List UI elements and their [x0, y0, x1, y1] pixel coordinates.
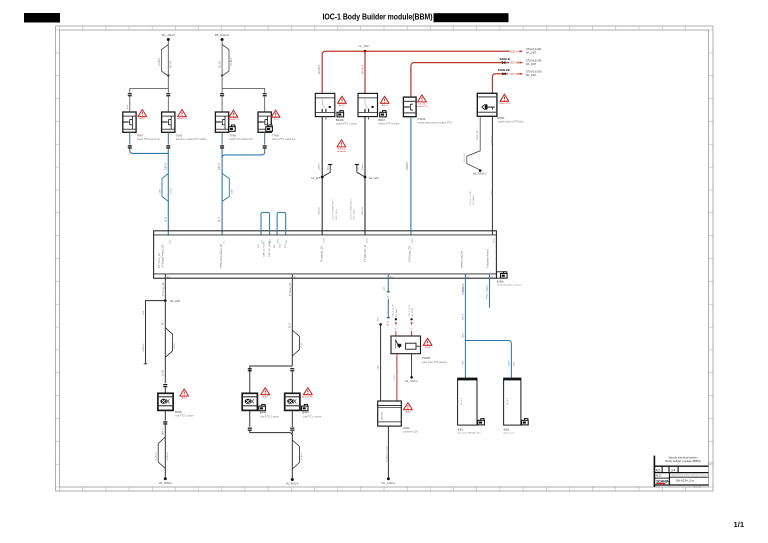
red wire P2606 to A43A [396, 354, 398, 401]
svg-text:A140: A140 [406, 410, 412, 413]
svg-text:C84(-2,-2)_8F: C84(-2,-2)_8F [393, 304, 395, 317]
svg-text:AA_NA4: AA_NA4 [369, 176, 380, 180]
svg-text:40-1: 40-1 [390, 276, 394, 278]
node WL_B05x4 [164, 477, 167, 480]
svg-text:(P-N-G_1-)/12D: (P-N-G_1-)/12D [470, 190, 472, 205]
wire [167, 97, 169, 112]
svg-text:B301: B301 [458, 428, 464, 431]
svg-text:T-number 4 mm2: T-number 4 mm2 [487, 248, 490, 268]
svg-text:LT/6C: LT/6C [174, 343, 176, 349]
svg-text:NL/85-1: NL/85-1 [158, 57, 161, 66]
svg-text:E56A: E56A [498, 116, 505, 120]
svg-text:90/9B: 90/9B [162, 370, 164, 376]
svg-text:BL/4: BL/4 [218, 216, 221, 222]
wire [291, 372, 293, 394]
svg-text:C84(-2,-3)_2F: C84(-2,-3)_2F [409, 304, 411, 317]
wire below B447 [291, 410, 293, 426]
svg-text:ST70 res_2B: ST70 res_2B [162, 282, 165, 296]
svg-text:S30B-B: S30B-B [500, 57, 510, 61]
wire bypass loop right [292, 330, 299, 356]
wire below T7A9 [264, 132, 266, 144]
svg-text:LT/1C: LT/1C [170, 188, 172, 194]
warning triangle at P2606 [423, 338, 432, 349]
svg-text:1 out: 1 out [656, 485, 661, 488]
warning triangle at B344b [338, 96, 347, 107]
svg-text:T7A9: T7A9 [272, 133, 279, 137]
warning triangle at B447 [302, 388, 314, 399]
connector splice above B447 [290, 368, 294, 371]
wire to node B2_B05x4 [291, 431, 293, 478]
svg-text:connector: connector [337, 150, 346, 153]
blue jumper staple 2 on bar [277, 212, 286, 234]
svg-text:LT/4C: LT/4C [301, 342, 303, 348]
warning triangle at T1A1 [177, 110, 188, 121]
svg-text:BL/A: BL/A [326, 165, 329, 170]
svg-text:switch PTO status 3rd: switch PTO status 3rd [229, 138, 253, 141]
svg-text:NBF-3: NBF-3 [162, 428, 164, 435]
red feed arrow S30-1 [511, 48, 543, 54]
blue wire T7A8 to bar pin [221, 149, 223, 235]
svg-text:WL_NA4x-1: WL_NA4x-1 [472, 193, 475, 205]
title block top tick on frame [709, 462, 714, 464]
warning triangle at P1141 [416, 95, 427, 108]
svg-text:WL_NA64+: WL_NA64+ [405, 380, 418, 383]
svg-text:GB31-B: GB31-B [362, 207, 364, 215]
svg-text:WL_NA24-1: WL_NA24-1 [473, 173, 487, 176]
svg-text:14/4T: 14/4T [231, 188, 233, 194]
svg-text:BT+1.2: BT+1.2 [461, 397, 463, 405]
plug icon at B301 [478, 419, 485, 425]
svg-text:T1A1: T1A1 [176, 133, 183, 137]
svg-text:B4517: B4517 [139, 118, 146, 120]
svg-text:GB31_NA4u: GB31_NA4u [353, 209, 356, 220]
wire into switch T1A1 [167, 89, 169, 93]
svg-text:LM/2: LM/2 [462, 332, 464, 338]
blue wire stub continuation [387, 299, 389, 318]
blue wire bypass loop 2 [222, 174, 229, 202]
connector splice above T7A9 [263, 93, 267, 96]
svg-text:switch-disconnector engine PTO: switch-disconnector engine PTO [418, 122, 453, 125]
svg-text:4b 20: 4b 20 [656, 475, 663, 478]
connector splice below B447 [290, 428, 294, 431]
svg-text:T7A8: T7A8 [229, 133, 236, 137]
switch T1A1 [162, 112, 175, 132]
lamp B447 [285, 393, 300, 410]
svg-text:NL/85-2: NL/85-2 [230, 57, 233, 66]
svg-text:10AE-4: 10AE-4 [318, 162, 321, 170]
plug icon at B446 [259, 404, 266, 410]
svg-text:30.15: 30.15 [270, 239, 272, 244]
warning triangle at A43A [404, 403, 413, 414]
wire into switch T7A8 [221, 89, 223, 93]
red feed arrow S30B-2B [498, 68, 542, 77]
wire bypass loop right of WL_ANAU2 drop [222, 45, 229, 77]
connector splice below T7A8 [220, 145, 224, 148]
redaction box top-left [24, 13, 60, 23]
svg-text:14/1T: 14/1T [160, 188, 162, 194]
svg-text:B-GB37-2_1.5Q: B-GB37-2_1.5Q [387, 446, 389, 462]
svg-text:switch PTO 4 active: switch PTO 4 active [379, 123, 401, 126]
warning triangle at B347 [380, 96, 389, 107]
svg-text:19: 19 [491, 276, 493, 278]
lamp B446 [242, 393, 257, 410]
node UL_1007 [364, 50, 367, 53]
switch T6A7 [123, 112, 136, 132]
node WL_NA24-1 [479, 169, 482, 172]
BCI box B301 [458, 378, 481, 435]
svg-text:WL_B05x4: WL_B05x4 [159, 481, 172, 485]
svg-text:3 4: 3 4 [671, 468, 676, 472]
svg-text:S30-1: S30-1 [511, 50, 518, 53]
wire below T7A8 (blue) [221, 132, 223, 144]
svg-text:relay timer PTO gauges: relay timer PTO gauges [422, 361, 448, 364]
svg-text:WL_ANAU: WL_ANAU [162, 33, 176, 37]
relay P2606 [391, 336, 448, 364]
plug icon at T7A8 [229, 125, 236, 131]
svg-text:converter 12V: converter 12V [403, 431, 418, 434]
wire bypass loop left [158, 437, 165, 469]
relay B347 [358, 93, 400, 125]
svg-text:1/1: 1/1 [734, 520, 745, 529]
wire [221, 97, 223, 112]
relay B344b [315, 93, 357, 125]
blue wire bar to BCI boxes [465, 274, 511, 378]
lamp B445 [158, 393, 173, 410]
blue wire bar pin 40-1 [387, 274, 389, 292]
node WL_E05 [164, 299, 167, 302]
wire node WL_E05 to lamp B445 [164, 301, 166, 384]
svg-text:NBF-3: NBF-3 [164, 162, 167, 170]
svg-text:UL_1007: UL_1007 [358, 44, 370, 48]
svg-text:3-1: 3-1 [294, 276, 297, 278]
svg-text:10AE-2: 10AE-2 [361, 162, 364, 170]
blue wire T1A1 to bar pin [167, 149, 169, 235]
svg-text:SSW2.2B: SSW2.2B [492, 135, 494, 145]
svg-text:B2_B05x4: B2_B05x4 [286, 482, 299, 486]
wire E56A right pin to bar [491, 116, 493, 234]
wire below B445 [164, 410, 166, 420]
svg-text:PTO1 level select_2B: PTO1 level select_2B [220, 244, 223, 268]
wire E56A left pin with jog [467, 116, 480, 170]
svg-text:SCANIA: SCANIA [656, 479, 669, 483]
red supply wire UL_1007 [322, 51, 510, 93]
wire bypass loop right [165, 328, 172, 358]
svg-text:C8/18: C8/18 [324, 238, 326, 243]
blue stub wire TW/19 [489, 274, 491, 308]
switch-disconnector P1141 [403, 97, 452, 124]
svg-text:C8/22: C8/22 [366, 238, 368, 243]
blue jumper staple 1 on bar [261, 212, 270, 234]
svg-text:switch mode of PTO(1st): switch mode of PTO(1st) [498, 121, 524, 124]
connector splice above B445 [163, 384, 167, 387]
pin stub relay B347 pin 2 [368, 117, 370, 120]
wire relay B347 to bar [364, 117, 366, 235]
wire merge below lamps [250, 431, 292, 436]
warning triangle at T6A7 [138, 110, 147, 121]
connector splice below B445 [163, 421, 167, 424]
svg-text:30.15: 30.15 [278, 239, 280, 244]
BCI box B302 [504, 378, 521, 435]
svg-text:WL_1007: WL_1007 [526, 63, 537, 66]
svg-text:T-BT: T-BT [492, 190, 494, 195]
svg-text:C-5V: C-5V [394, 374, 396, 380]
connector splice above B446 [248, 368, 252, 371]
switch T7A8 [215, 112, 228, 132]
blue wire bus pair 1 [130, 149, 169, 154]
svg-text:A3: A3 [656, 468, 660, 472]
plug icon at B347 [380, 111, 387, 117]
svg-text:B344b: B344b [336, 118, 345, 122]
svg-text:29: 29 [467, 276, 469, 278]
wire bypass loop left of WL_ANAU drop [162, 45, 169, 77]
plug icon at B302 [522, 419, 529, 425]
svg-text:WWE_4B: WWE_4B [477, 130, 479, 140]
svg-text:A140: A140 [425, 346, 431, 349]
blue wire P1141 to bar [410, 117, 412, 235]
svg-text:B/S: B/S [514, 362, 516, 366]
switch T7A9 [258, 112, 271, 132]
svg-text:BL/4: BL/4 [289, 323, 291, 328]
warning triangle at E56A [499, 94, 510, 105]
wire below B446 [249, 410, 251, 426]
svg-text:WL_1007: WL_1007 [526, 52, 537, 55]
connector splice above T7A8 [220, 93, 224, 96]
warning triangle at B445 [180, 389, 189, 400]
wire converter feed from node [379, 323, 382, 326]
connector splice below T6A7 [128, 145, 132, 148]
red pin stub C84-2 [393, 304, 398, 336]
red wire down to relay B347 [364, 51, 366, 93]
svg-text:switch-st y-status PTO status: switch-st y-status PTO status [176, 138, 208, 141]
svg-text:BCI chassis: BCI chassis [504, 433, 515, 435]
svg-text:IP outputs_2B: IP outputs_2B [321, 246, 324, 262]
node B2_B05x4 [291, 478, 294, 481]
node AA_NA4 [364, 176, 367, 179]
svg-text:16b-8234_/1st: 16b-8234_/1st [675, 479, 694, 483]
svg-text:sheet 1/1: sheet 1/1 [694, 485, 702, 488]
svg-text:P1141: P1141 [418, 117, 426, 121]
wire branch to switch T6A7 [130, 89, 169, 93]
svg-text:BL/A: BL/A [164, 216, 167, 222]
svg-text:xtra PTO 2 active: xtra PTO 2 active [260, 415, 279, 418]
svg-text:WL/87: WL/87 [218, 60, 221, 68]
svg-text:ST-B back select_2B: ST-B back select_2B [161, 244, 164, 268]
red wire to E56A riser [492, 74, 508, 94]
blue wire bus pair 2 [222, 149, 265, 158]
wire branch to switch T7A9 [222, 89, 265, 93]
branch stub at node AA_NA4 [357, 165, 365, 178]
svg-text:A-NN/24: A-NN/24 [155, 451, 158, 460]
svg-text:comms org_2m: comms org_2m [460, 251, 463, 268]
branch stub at node AA_E05 [322, 165, 330, 178]
warning triangle at T7A8 [228, 110, 241, 121]
wire below T1A1 [167, 132, 169, 144]
svg-text:Switch PTx: Switch PTx [499, 102, 510, 105]
svg-text:B451: B451 [263, 396, 269, 398]
svg-text:B445: B445 [175, 410, 182, 414]
node WL_NA64+ [410, 376, 413, 379]
svg-text:WV-9-3GY: WV-9-3GY [464, 152, 466, 162]
svg-text:(10x2_GYSME)/GB/2.5: (10x2_GYSME)/GB/2.5 [350, 198, 352, 220]
svg-text:B PTO res_2G: B PTO res_2G [158, 253, 161, 268]
plug icon at T7A9 [266, 125, 273, 131]
svg-text:BT+1.2: BT+1.2 [507, 397, 509, 405]
svg-text:B451: B451 [182, 398, 188, 400]
svg-text:S07-1B: S07-1B [511, 73, 520, 76]
svg-text:WL/87: WL/87 [169, 60, 172, 68]
svg-text:BCI system BB (Airwork): BCI system BB (Airwork) [458, 432, 481, 435]
svg-text:manage PTx: manage PTx [228, 119, 241, 121]
pin stub relay B344b pin 2 [325, 117, 327, 120]
svg-text:A1417: A1417 [339, 104, 346, 107]
red wire to P1141 riser [411, 63, 509, 98]
svg-text:A43A: A43A [403, 426, 410, 430]
svg-text:Angst PTx: Angst PTx [177, 117, 188, 120]
wire relay B344b to bar [321, 117, 323, 235]
svg-text:24V/12V: 24V/12V [381, 411, 383, 420]
switch E56A [477, 93, 524, 123]
wire from WL_ANAU2 down [221, 41, 223, 89]
svg-text:WV-R2.5: WV-R2.5 [362, 64, 364, 74]
connector splice above T6A7 [128, 93, 132, 96]
node WL_GNA3+ [387, 477, 390, 480]
svg-text:TW/19: TW/19 [487, 285, 489, 292]
node AA_E05 [321, 176, 324, 179]
svg-text:xtra PTO x active: xtra PTO x active [303, 415, 322, 418]
wire P2606 to node WL_NA64 [411, 354, 413, 376]
module IOC-1 central connector bar [154, 231, 497, 296]
warning triangle center [337, 140, 347, 153]
svg-text:approved body builder connecti: approved body builder connection drawing… [671, 474, 710, 477]
svg-text:30.1: 30.1 [262, 240, 264, 244]
wire below T6A7 [129, 132, 131, 144]
svg-text:xtra PTO 1 active: xtra PTO 1 active [175, 415, 194, 418]
svg-text:PT BAT refs_2T: PT BAT refs_2T [364, 244, 367, 262]
svg-text:WV-R2.5: WV-R2.5 [319, 64, 321, 74]
svg-text:26-1: 26-1 [167, 276, 171, 278]
svg-text:Body builder module (BBM): Body builder module (BBM) [665, 459, 700, 463]
svg-text:engine PTO: engine PTO [416, 106, 427, 108]
svg-text:WL_GNA3+: WL_GNA3+ [381, 481, 395, 485]
wire [164, 388, 166, 394]
connector splice below B446 [248, 428, 252, 431]
svg-text:C8/25: C8/25 [412, 238, 414, 243]
svg-text:WL_NA67: WL_NA67 [395, 307, 398, 317]
svg-text:A-NN/34: A-NN/34 [166, 451, 169, 460]
svg-text:WE_0: WE_0 [462, 313, 464, 320]
svg-text:A1414: A1414 [382, 104, 389, 107]
svg-text:switch PTO status 1st: switch PTO status 1st [137, 138, 160, 141]
svg-text:GB31_B05u: GB31_B05u [336, 209, 338, 220]
svg-text:10AE/14: 10AE/14 [142, 343, 145, 352]
chevron at WL_ANAU loop merge [167, 75, 170, 78]
svg-text:C84/7: C84/7 [508, 359, 510, 366]
svg-text:WL_T4R2: WL_T4R2 [412, 307, 414, 317]
svg-text:with body builder connector: with body builder connector [497, 284, 523, 287]
svg-text:S07-1B: S07-1B [511, 62, 520, 65]
wire bypass loop right [292, 440, 299, 469]
plug icon at B447 [301, 404, 308, 410]
svg-text:T6A7: T6A7 [137, 133, 144, 137]
svg-text:IP Outsn_2O: IP Outsn_2O [289, 283, 292, 296]
svg-text:TW/19: TW/19 [487, 293, 489, 300]
wire bar down to lamp split [291, 274, 293, 366]
connector B246b at bar end [497, 272, 523, 287]
svg-text:Airwork PTx: Airwork PTx [302, 395, 314, 398]
node WL_ANAU2 [215, 33, 230, 41]
red pin stub C84-3 [409, 304, 414, 336]
svg-text:BL/7: BL/7 [162, 320, 164, 325]
stub branch wire left [144, 301, 166, 364]
svg-text:P2606: P2606 [422, 356, 431, 360]
connector splice above T1A1 [166, 93, 170, 96]
converter A43A [378, 401, 419, 434]
svg-text:WL_E05: WL_E05 [170, 299, 181, 303]
svg-text:GB31-B: GB31-B [319, 207, 321, 215]
wire bar to node WL_E05 [164, 274, 166, 301]
svg-text:switch PTO 1 active: switch PTO 1 active [336, 123, 358, 126]
svg-text:B302: B302 [504, 428, 510, 431]
wire [129, 97, 131, 112]
blue wire bypass loop [162, 174, 168, 202]
svg-text:(10x2_GYSME)/GB/2.5: (10x2_GYSME)/GB/2.5 [333, 198, 335, 220]
svg-text:IOC-1 Body Builder module(BBM): IOC-1 Body Builder module(BBM) [323, 13, 433, 22]
svg-text:AA_E05: AA_E05 [311, 176, 321, 180]
svg-text:30.2: 30.2 [286, 240, 288, 244]
svg-text:BL/A: BL/A [356, 165, 359, 170]
svg-text:IP 12 puts_2O: IP 12 puts_2O [409, 246, 412, 262]
red feed arrow S30B-B [500, 57, 543, 66]
warning triangle at B446 [261, 388, 270, 399]
svg-text:NBF-4: NBF-4 [218, 162, 221, 170]
svg-text:S30B-2B: S30B-2B [498, 68, 510, 72]
title block [654, 456, 709, 489]
wire split to lamp B446 [250, 366, 292, 372]
svg-text:C8/31: C8/31 [494, 238, 496, 243]
svg-text:WL_1007: WL_1007 [526, 74, 537, 77]
svg-text:switch PTO status 4rd: switch PTO status 4rd [272, 138, 296, 141]
connector splice below T7A9 [263, 145, 267, 148]
wire A43A to node WL_GNA3 [387, 426, 389, 478]
warning triangle at T7A9 [271, 110, 280, 121]
wire from WL_ANAU down [167, 41, 169, 89]
node WL_ANAU [162, 33, 176, 41]
svg-text:B246/29: B246/29 [462, 286, 464, 295]
svg-text:B5_ANAU2: B5_ANAU2 [215, 33, 230, 37]
wire [249, 372, 251, 394]
wire to node WL_B05x4 [164, 425, 166, 478]
svg-text:1/4E: 1/4E [378, 365, 380, 370]
connector splice below T1A1 [166, 145, 170, 148]
wire [264, 97, 266, 112]
svg-text:A-NN/2x: A-NN/2x [300, 452, 303, 460]
plug icon at B344b [337, 111, 344, 117]
svg-text:SSW/B: SSW/B [406, 162, 409, 170]
svg-text:B246b: B246b [497, 280, 505, 283]
svg-text:B347: B347 [379, 118, 386, 122]
chevron at WL_ANAU2 loop merge [221, 75, 224, 78]
redaction box in title [434, 13, 509, 22]
